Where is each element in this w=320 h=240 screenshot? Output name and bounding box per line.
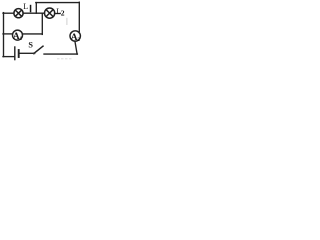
wire riser from node to top wire	[35, 3, 37, 14]
wire bottom left segment	[3, 56, 14, 58]
wire left rail	[3, 13, 5, 57]
lamp L1	[14, 9, 23, 18]
battery short plate	[18, 50, 20, 57]
ammeter A2	[70, 31, 80, 41]
wire top lamp row left segment	[3, 12, 14, 14]
wire right rail upper	[78, 2, 80, 31]
wire middle row right segment	[22, 33, 42, 35]
label L1	[23, 2, 31, 12]
label L2	[56, 7, 65, 18]
wire stub right of L2	[55, 13, 60, 15]
wire bottom right segment	[44, 53, 77, 55]
wire right rail lower	[75, 41, 77, 54]
svg-text:2: 2	[61, 8, 65, 17]
label A1 inside meter	[13, 32, 23, 42]
wire middle row left segment	[3, 33, 13, 35]
svg-text:1: 1	[20, 36, 23, 42]
ammeter A1	[13, 30, 23, 40]
wire top bypass	[36, 2, 80, 4]
svg-text:S: S	[28, 41, 33, 50]
lamp L2	[45, 8, 55, 18]
svg-text:L: L	[23, 2, 28, 11]
faint bleed-through mark right of L2	[66, 18, 68, 25]
faint bleed-through smudge bottom	[57, 58, 72, 60]
switch pivot dot	[33, 52, 35, 54]
svg-text:2: 2	[77, 37, 80, 43]
battery long plate	[14, 47, 16, 60]
switch lever	[34, 46, 43, 54]
wire riser middle to lamp row	[41, 14, 43, 35]
wire battery to switch	[20, 52, 34, 54]
wire between L1 and L2	[23, 12, 44, 14]
label A2 inside meter	[71, 33, 81, 43]
